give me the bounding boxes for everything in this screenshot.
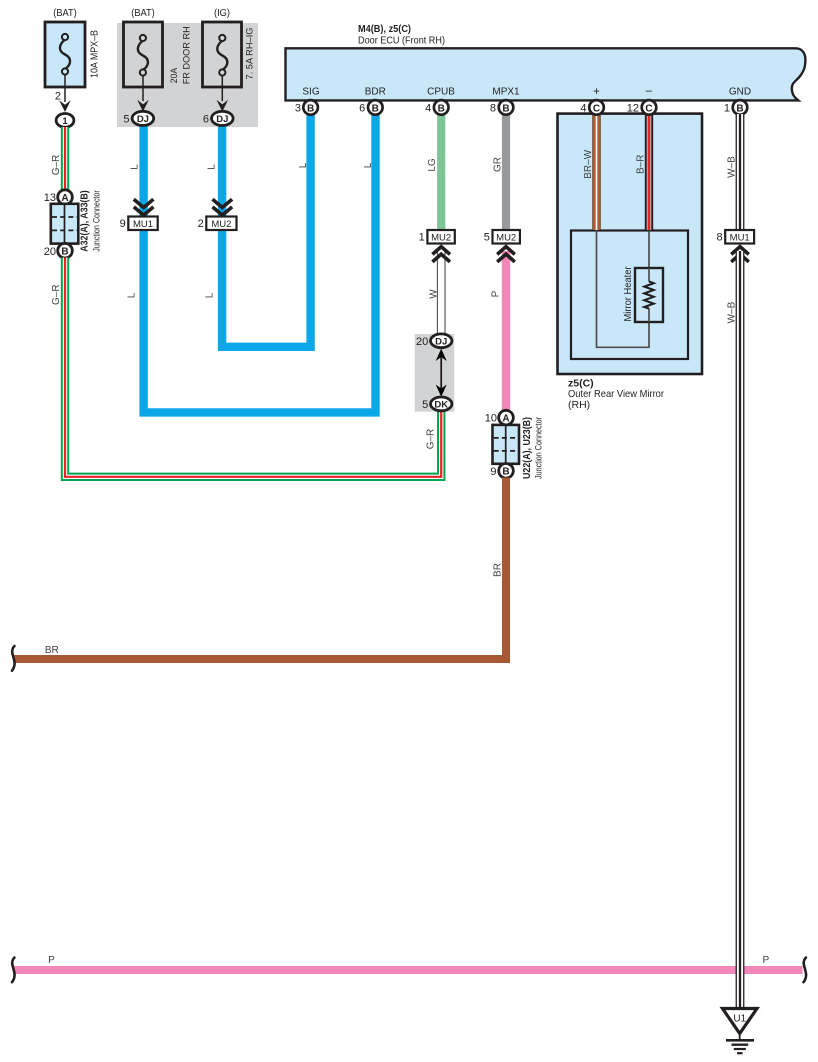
- svg-text:LG: LG: [427, 158, 438, 172]
- svg-text:L: L: [130, 164, 141, 170]
- svg-text:A32(A), A33(B): A32(A), A33(B): [80, 190, 91, 252]
- wire G-R from connector 1 to junction A: [61, 127, 69, 191]
- wire G-R from junction B down right and up to DK: [65, 258, 441, 477]
- svg-text:9: 9: [120, 218, 126, 230]
- svg-text:2: 2: [198, 218, 204, 230]
- svg-text:MU2: MU2: [496, 232, 516, 243]
- svg-text:G–R: G–R: [51, 155, 62, 176]
- svg-text:W–B: W–B: [726, 301, 737, 323]
- chevron arrows into MU2: [213, 199, 233, 215]
- svg-text:6: 6: [359, 102, 365, 114]
- wire GR from MPX1: [502, 114, 510, 232]
- svg-text:B: B: [307, 103, 314, 114]
- pin 6 B BDR: [368, 100, 383, 115]
- svg-text:DJ: DJ: [435, 336, 447, 347]
- svg-text:BR–W: BR–W: [583, 149, 594, 178]
- blue wire DJ6 to MU2 to SIG: [222, 114, 311, 347]
- svg-text:MU1: MU1: [133, 219, 153, 230]
- svg-text:20: 20: [44, 246, 56, 258]
- connector MU1 pin 8: [725, 230, 754, 244]
- wire lead from fuse to connector 1: [64, 75, 66, 103]
- junction connector U22(A), U23(B): [485, 410, 545, 479]
- wire lead fuse2 to DJ: [142, 76, 144, 102]
- wire BR-W from + pin: [592, 114, 600, 230]
- svg-text:L: L: [207, 164, 218, 170]
- svg-text:6: 6: [203, 113, 209, 125]
- svg-text:G–R: G–R: [51, 284, 62, 305]
- svg-text:8: 8: [490, 102, 496, 114]
- svg-text:+: +: [593, 86, 600, 98]
- connector MU2 pin 2: [206, 217, 236, 231]
- internal wire from - lead to heater top: [648, 231, 650, 269]
- svg-text:DJ: DJ: [216, 114, 228, 125]
- connector DJ ellipse pin 5: [132, 111, 154, 125]
- connector DK ellipse pin 5: [431, 397, 452, 411]
- svg-text:A: A: [61, 193, 68, 204]
- fuse 20A FR DOOR RH: [124, 7, 193, 87]
- chevron arrows into MU1: [134, 199, 154, 215]
- svg-text:5: 5: [123, 113, 129, 125]
- wire W to DJ: [437, 251, 446, 337]
- svg-text:9: 9: [490, 466, 496, 478]
- svg-text:B: B: [372, 103, 379, 114]
- double arrow between DJ and DK: [436, 349, 447, 397]
- svg-text:MPX1: MPX1: [492, 87, 520, 98]
- continuation squiggle P left: [12, 958, 15, 983]
- svg-text:DK: DK: [434, 400, 448, 411]
- svg-text:B: B: [502, 467, 509, 478]
- svg-text:20A: 20A: [169, 67, 180, 83]
- svg-text:5: 5: [484, 232, 490, 244]
- svg-text:DJ: DJ: [137, 114, 149, 125]
- svg-text:BR: BR: [45, 645, 59, 656]
- svg-text:MU2: MU2: [431, 232, 451, 243]
- svg-text:BR: BR: [493, 563, 504, 577]
- svg-text:L: L: [298, 162, 309, 168]
- outer rear view mirror box z5(C): [558, 114, 703, 411]
- connector DJ ellipse pin 6: [212, 111, 234, 125]
- wire P to junction A: [502, 251, 510, 412]
- svg-text:GND: GND: [729, 87, 751, 98]
- svg-text:B–R: B–R: [636, 155, 647, 174]
- inner mirror heater assembly box: [571, 231, 688, 360]
- svg-text:L: L: [363, 162, 374, 168]
- svg-text:4: 4: [580, 102, 586, 114]
- svg-text:GR: GR: [493, 157, 504, 172]
- pin 3 B SIG: [303, 100, 318, 115]
- svg-text:1: 1: [62, 116, 68, 127]
- svg-text:10A MPX–B: 10A MPX–B: [90, 30, 101, 78]
- wire W-B from GND pin to MU1: [736, 114, 745, 231]
- svg-text:3: 3: [295, 102, 301, 114]
- svg-text:FR DOOR RH: FR DOOR RH: [182, 26, 193, 84]
- continuation squiggle P right: [804, 958, 807, 983]
- svg-text:MU1: MU1: [730, 232, 750, 243]
- svg-text:20: 20: [416, 336, 428, 348]
- pin 12 C minus: [642, 100, 657, 115]
- chevron arrows out of MU2 pin1: [432, 247, 450, 262]
- svg-text:A: A: [502, 414, 509, 425]
- svg-text:B: B: [502, 103, 509, 114]
- connector MU1 pin 9: [128, 217, 157, 231]
- svg-text:(BAT): (BAT): [131, 7, 155, 19]
- svg-text:BDR: BDR: [365, 87, 386, 98]
- svg-text:1: 1: [419, 232, 425, 244]
- pin 4 B CPUB: [434, 100, 449, 115]
- svg-text:W–B: W–B: [726, 156, 737, 178]
- svg-text:C: C: [593, 103, 600, 114]
- svg-text:–: –: [646, 85, 653, 97]
- svg-text:12: 12: [627, 102, 639, 114]
- svg-text:Junction Connector: Junction Connector: [534, 417, 545, 479]
- svg-text:SIG: SIG: [302, 87, 319, 98]
- chevron arrows out of MU1 pin8: [731, 247, 749, 262]
- svg-text:U22(A), U23(B): U22(A), U23(B): [522, 417, 533, 479]
- svg-text:7. 5A RH–IG: 7. 5A RH–IG: [245, 28, 256, 80]
- svg-text:C: C: [645, 103, 652, 114]
- arrow into DJ 6: [217, 100, 229, 112]
- svg-text:MU2: MU2: [211, 219, 231, 230]
- arrow into DJ 5: [137, 100, 149, 112]
- svg-text:1: 1: [724, 102, 730, 114]
- blue wire DJ5 to MU1 to BDR: [144, 114, 376, 413]
- pin 1 B GND: [733, 100, 748, 115]
- internal wire from + lead to heater bottom: [597, 231, 650, 348]
- svg-text:B: B: [61, 247, 68, 258]
- junction connector A32(A), A33(B): [44, 190, 103, 258]
- connector 1 ellipse: [56, 114, 74, 128]
- svg-text:10: 10: [485, 413, 497, 425]
- bottom wire P across page: [14, 966, 803, 974]
- wire LG from CPUB: [437, 114, 445, 232]
- svg-text:W: W: [428, 289, 439, 299]
- svg-text:L: L: [127, 292, 138, 298]
- resistor zigzag: [644, 282, 653, 309]
- svg-text:Mirror Heater: Mirror Heater: [623, 266, 634, 322]
- wire BR from junction B to left edge: [14, 478, 506, 660]
- wire B-R from - pin: [645, 114, 653, 230]
- svg-text:M4(B), z5(C): M4(B), z5(C): [358, 23, 411, 35]
- svg-text:U1: U1: [733, 1014, 746, 1025]
- svg-text:5: 5: [422, 399, 428, 411]
- svg-text:8: 8: [716, 232, 722, 244]
- svg-text:L: L: [205, 292, 216, 298]
- pin 4 C plus: [589, 100, 604, 115]
- mirror heater resistor box: [635, 268, 663, 322]
- continuation squiggle BR: [12, 646, 15, 671]
- svg-text:P: P: [48, 955, 55, 966]
- ECU pin circles: [295, 100, 747, 115]
- connector MU2 pin 1: [427, 230, 454, 244]
- svg-text:B: B: [736, 103, 743, 114]
- svg-text:CPUB: CPUB: [427, 87, 455, 98]
- svg-text:G–R: G–R: [425, 429, 436, 450]
- ECU box M4(B)/z5(C) Door ECU (Front RH): [286, 23, 806, 100]
- arrow into connector 1: [59, 100, 71, 112]
- fuse 10A MPX-B: [45, 7, 101, 87]
- connector DJ ellipse pin 20: [431, 334, 452, 348]
- fuse 7.5A RH-IG: [203, 7, 256, 87]
- ground symbol U1: [723, 1009, 758, 1054]
- wire W-B from MU1 down to ground: [736, 251, 745, 1008]
- pin 8 B MPX1: [499, 100, 514, 115]
- svg-text:B: B: [438, 103, 445, 114]
- svg-text:4: 4: [425, 102, 431, 114]
- svg-text:2: 2: [55, 91, 61, 103]
- svg-text:(IG): (IG): [214, 7, 230, 19]
- svg-text:P: P: [491, 290, 502, 297]
- svg-text:(BAT): (BAT): [53, 7, 77, 19]
- chevron arrows out of MU2 pin5: [497, 247, 515, 262]
- resistor leads: [648, 268, 650, 282]
- wire lead fuse3 to DJ: [221, 76, 223, 102]
- svg-text:Door ECU (Front RH): Door ECU (Front RH): [358, 35, 445, 47]
- connector MU2 pin 5: [493, 230, 520, 244]
- svg-text:Junction Connector: Junction Connector: [92, 190, 103, 252]
- svg-text:(RH): (RH): [568, 399, 590, 411]
- fuse block gray box: [117, 23, 258, 127]
- svg-text:13: 13: [44, 192, 56, 204]
- gray box around DJ-DK: [415, 334, 455, 412]
- svg-text:P: P: [762, 955, 769, 966]
